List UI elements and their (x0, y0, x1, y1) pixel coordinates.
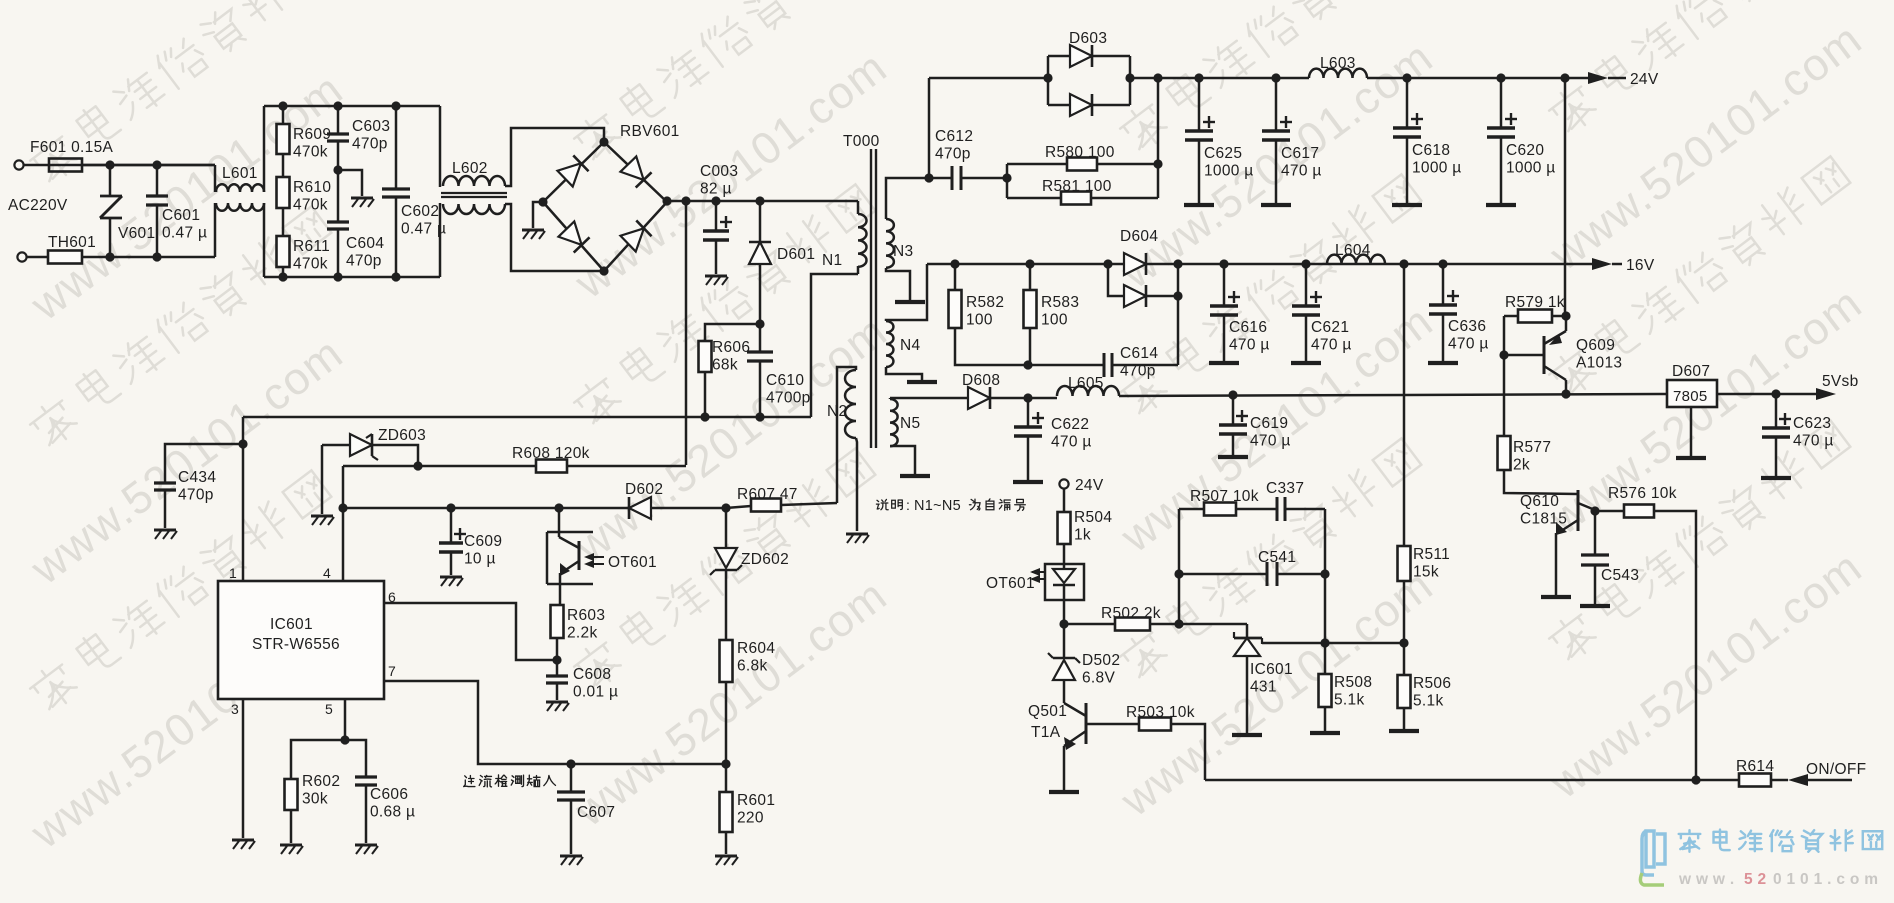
pin numbers IC601 (229, 565, 396, 717)
svg-text:D603: D603 (1069, 30, 1107, 47)
wire (1305, 315, 1308, 361)
capacitor C619 (1219, 410, 1248, 434)
wire to C434 (165, 444, 243, 483)
optocoupler OT601 LED (1030, 564, 1084, 600)
svg-text:C608: C608 (573, 666, 611, 683)
label R511 (1413, 546, 1450, 581)
inductor L601 bottom (216, 203, 264, 211)
resistor R582 (949, 290, 962, 328)
svg-text:1k: 1k (1074, 527, 1091, 544)
svg-text:R503 10k: R503 10k (1126, 704, 1195, 721)
svg-text:C625: C625 (1204, 145, 1242, 162)
ground bar N5 (900, 474, 930, 478)
label C625 (1204, 145, 1254, 180)
ground (715, 856, 738, 865)
terminal AC neutral input (17, 252, 26, 261)
wire 16V rail (927, 263, 1596, 266)
wire 431 cathode line (1262, 642, 1404, 645)
label R609 (293, 126, 331, 161)
ground (154, 530, 177, 539)
wire (556, 638, 559, 660)
label D603 (1069, 30, 1107, 47)
wire R577 to Q610 base (1504, 470, 1578, 494)
junction (1301, 259, 1310, 268)
junction (1438, 259, 1447, 268)
label L603 (1320, 55, 1356, 72)
label R504 (1074, 509, 1112, 544)
label C623 (1793, 415, 1834, 450)
svg-text:N1~N5: N1~N5 (914, 498, 961, 514)
label C606 (370, 786, 415, 821)
label R583 (1041, 294, 1079, 329)
capacitor C541 (1267, 562, 1277, 586)
junction (278, 101, 287, 110)
svg-text:100: 100 (1041, 312, 1068, 329)
capacitor C608 (546, 676, 568, 683)
svg-text:0.47 µ: 0.47 µ (162, 225, 207, 242)
svg-text:1000 µ: 1000 µ (1506, 160, 1556, 177)
terminal AC line input (14, 160, 23, 169)
wire N4 top to 16V rail (886, 264, 927, 321)
wire L602 to bridge top (505, 128, 604, 186)
svg-text:OT601: OT601 (608, 554, 657, 571)
wire N2 bottom (856, 438, 857, 531)
svg-text:T1A: T1A (1031, 724, 1061, 741)
wire D604 lower branch (1108, 264, 1124, 296)
svg-text:L605: L605 (1068, 375, 1104, 392)
svg-text:1000 µ: 1000 µ (1412, 160, 1462, 177)
junction (1173, 259, 1182, 268)
wire R576 to ON/OFF line (1654, 511, 1696, 780)
transformer winding N4 (886, 321, 893, 367)
wire (725, 682, 728, 764)
svg-text:STR-W6556: STR-W6556 (252, 636, 340, 653)
svg-text:470 µ: 470 µ (1281, 163, 1322, 180)
wire (1064, 623, 1115, 626)
junction (1043, 73, 1052, 82)
label R579 1k (1505, 294, 1565, 311)
capacitor C607 (557, 792, 585, 800)
wire ZD603 to R608 line (372, 445, 418, 466)
wire (450, 552, 453, 575)
wire to IC601 431 (1246, 624, 1249, 637)
junction (1002, 173, 1011, 182)
label C618 (1412, 142, 1462, 177)
wire (1007, 163, 1067, 166)
wire B+ to R608 (685, 201, 688, 465)
svg-text:470 µ: 470 µ (1250, 433, 1291, 450)
junction (413, 461, 422, 470)
wire (954, 264, 957, 290)
svg-text:V601: V601 (118, 225, 155, 242)
wire (1091, 197, 1158, 200)
label R604 (737, 640, 775, 675)
ground bar (1291, 361, 1321, 365)
svg-text:D502: D502 (1082, 652, 1120, 669)
svg-text:R581 100: R581 100 (1042, 178, 1112, 195)
wire (556, 660, 559, 676)
wire (1150, 623, 1247, 626)
wire N1 top (857, 201, 860, 214)
svg-text:6.8k: 6.8k (737, 658, 768, 675)
junction (755, 412, 764, 421)
label RBV601 (620, 123, 680, 140)
label L604 (1335, 242, 1371, 259)
junction (1561, 311, 1570, 320)
label T000 (843, 133, 880, 150)
wire (1198, 78, 1201, 131)
svg-text:16V: 16V (1626, 257, 1655, 274)
svg-text:0 1 0 1 . c o m: 0 1 0 1 . c o m (1773, 871, 1878, 888)
label C636 (1448, 318, 1489, 353)
label Q610 (1520, 493, 1567, 528)
svg-text:N1: N1 (822, 252, 842, 269)
svg-text:R611: R611 (293, 238, 330, 255)
ground bar (1486, 203, 1516, 207)
resistor R507 (1204, 503, 1236, 516)
junction (1023, 360, 1032, 369)
wire (1275, 140, 1278, 203)
wire ON/OFF line (1205, 779, 1788, 782)
wire (889, 398, 892, 399)
capacitor C623 (1762, 413, 1791, 437)
wire (1223, 315, 1226, 361)
wire (715, 201, 718, 231)
wire (725, 832, 728, 854)
varistor V601 (100, 165, 122, 257)
junction (333, 165, 342, 174)
wire R502 node up (1178, 509, 1181, 624)
wire (1608, 77, 1626, 80)
svg-text:R579 1k: R579 1k (1505, 294, 1565, 311)
wire (450, 508, 453, 543)
wire (26, 256, 49, 259)
wire pin5 (344, 699, 347, 740)
label N5 (900, 415, 920, 432)
label D608 (962, 372, 1000, 389)
wire rail to N1 bottom (811, 274, 858, 417)
wire (1552, 315, 1566, 318)
wire (1063, 680, 1066, 703)
ground (522, 230, 545, 239)
wire (1232, 434, 1235, 455)
svg-text:R583: R583 (1041, 294, 1079, 311)
svg-text:R606: R606 (712, 339, 750, 356)
svg-text:D602: D602 (625, 481, 663, 498)
resistor R606 (699, 341, 712, 372)
wire (1775, 437, 1778, 476)
ground bar N3 (895, 300, 925, 304)
junction (446, 503, 455, 512)
junction (1320, 569, 1329, 578)
wire to ground tap (338, 170, 362, 196)
svg-text:470k: 470k (293, 144, 328, 161)
capacitor C434 (154, 483, 176, 490)
wire (726, 506, 751, 508)
resistor R581 (1061, 192, 1091, 205)
wire Q501 emitter (1063, 746, 1066, 790)
wire N5 to D608 (890, 397, 969, 400)
wire pin7 overcurrent line (384, 681, 726, 764)
label C337 (1266, 480, 1304, 497)
wire (1324, 643, 1327, 674)
diode D604 lower (1124, 285, 1146, 307)
label 24V tap (1075, 477, 1104, 494)
svg-text:82 µ: 82 µ (700, 181, 732, 198)
junction (105, 160, 114, 169)
wire to R606 (705, 324, 760, 341)
svg-text:2k: 2k (1513, 457, 1530, 474)
junction (755, 319, 764, 328)
transformer winding N1 (858, 214, 867, 267)
junction (1402, 73, 1411, 82)
junction (711, 196, 720, 205)
wire (1500, 78, 1503, 128)
label ZD603 (378, 427, 426, 444)
ground (546, 702, 569, 711)
label N2 (827, 403, 847, 420)
wire (1232, 395, 1235, 425)
label D601 (777, 246, 815, 263)
wire (1500, 137, 1503, 203)
ground bar (1428, 361, 1458, 365)
capacitor C602 (382, 189, 410, 197)
label IC601/431 (1250, 661, 1293, 696)
wire (759, 324, 762, 352)
wire ZD603 anode to ground (321, 445, 324, 514)
label N3 (893, 243, 913, 260)
capacitor C003 (703, 216, 732, 240)
wire (1063, 544, 1066, 564)
winding N3 coil (886, 219, 894, 268)
label R603 (567, 607, 605, 642)
resistor R603 (551, 605, 564, 638)
junction (1103, 259, 1112, 268)
svg-text:www.520101.com: www.520101.com (1540, 277, 1872, 545)
wire 24V rail (1130, 77, 1309, 80)
wire (1594, 511, 1597, 555)
capacitor C612 (952, 166, 961, 190)
label 24V (1630, 71, 1659, 88)
junction (333, 101, 342, 110)
svg-text:C603: C603 (352, 118, 390, 135)
svg-text:470 µ: 470 µ (1311, 337, 1352, 354)
junction (1399, 259, 1408, 268)
label C617 (1281, 145, 1322, 180)
junction (338, 503, 347, 512)
svg-text:R511: R511 (1413, 546, 1450, 563)
wire (929, 177, 952, 180)
svg-text:470 µ: 470 µ (1229, 337, 1270, 354)
wire (1027, 398, 1030, 427)
svg-text:R580 100: R580 100 (1045, 144, 1115, 161)
svg-text:C619: C619 (1250, 415, 1288, 432)
label C543 (1601, 567, 1639, 584)
wire (164, 490, 167, 528)
wire (1595, 510, 1597, 513)
wire (1029, 264, 1032, 290)
junction (1023, 393, 1032, 402)
ground bar (1218, 455, 1248, 459)
label R577 (1513, 439, 1551, 474)
wire (395, 197, 398, 277)
label R601 (737, 792, 775, 827)
svg-text:24V: 24V (1630, 71, 1659, 88)
junction (1320, 638, 1329, 647)
junction (278, 272, 287, 281)
arrow 16V output (1592, 258, 1612, 270)
diode D601 (749, 242, 771, 264)
ground bar (1541, 595, 1571, 599)
junction (1499, 350, 1508, 359)
wire Q610 emitter (1555, 533, 1558, 595)
junction (1125, 73, 1134, 82)
wire (1198, 140, 1201, 203)
junction (1153, 159, 1162, 168)
inductor L602 bottom (443, 204, 505, 214)
wire (725, 764, 728, 792)
capacitor C617 (1262, 116, 1292, 140)
svg-text:w w w .: w w w . (1678, 871, 1735, 888)
ground (311, 516, 334, 525)
wire (1179, 508, 1204, 511)
wire (759, 264, 762, 324)
wire (23, 164, 215, 167)
label R606 (712, 339, 750, 374)
svg-text:N4: N4 (900, 337, 920, 354)
wire filter box right-top (439, 106, 442, 187)
transistor Q609 A1013 (1504, 331, 1566, 380)
ground bar (1389, 729, 1419, 733)
capacitor C610 (747, 352, 773, 361)
svg-text:C602: C602 (401, 203, 439, 220)
wire (1775, 394, 1778, 428)
bridge diode RBV601-4 (620, 220, 651, 251)
junction (1590, 506, 1599, 515)
svg-text:R508: R508 (1334, 674, 1372, 691)
svg-text::: : (906, 497, 910, 513)
label Q501 (1028, 703, 1067, 720)
wire 24V to Q609 (1564, 78, 1567, 316)
svg-text:C617: C617 (1281, 145, 1319, 162)
wire filter box top rail (264, 105, 440, 108)
wire to C606 (345, 740, 366, 777)
svg-text:470p: 470p (935, 146, 971, 163)
wire to ZD602 (725, 508, 728, 548)
junction (238, 439, 247, 448)
wire (1063, 624, 1066, 658)
label R611 (293, 238, 330, 273)
svg-text:C620: C620 (1506, 142, 1544, 159)
junction (1496, 73, 1505, 82)
junction (1271, 73, 1280, 82)
wire R607 to N2 (781, 503, 837, 505)
inductor L602 core (441, 193, 507, 197)
ground (232, 840, 255, 849)
regulator D607 7805 (1667, 380, 1717, 407)
label OT601 (0, 0, 1, 1)
junction (391, 101, 400, 110)
svg-text:D608: D608 (962, 372, 1000, 389)
svg-text:30k: 30k (302, 791, 328, 808)
bridge diode RBV601-1 (557, 155, 588, 186)
junction (152, 252, 161, 261)
junction (1399, 638, 1408, 647)
capacitor C621 (1292, 291, 1322, 315)
ground (440, 577, 463, 586)
wire (156, 205, 159, 257)
ground bar (1261, 203, 1291, 207)
wire N3 top (886, 178, 929, 219)
svg-text:N2: N2 (827, 403, 847, 420)
wire 431 anode (1246, 656, 1249, 733)
svg-text:C606: C606 (370, 786, 408, 803)
svg-text:470k: 470k (293, 256, 328, 273)
arrow ON/OFF input (1788, 774, 1808, 786)
label C604 (346, 235, 384, 270)
wire pin6 (384, 603, 557, 660)
ground bar (1232, 733, 1262, 737)
wire R582 bottom (955, 328, 1028, 365)
arrow 24V output (1588, 72, 1608, 84)
ground bar (1676, 456, 1706, 460)
wire (1097, 163, 1158, 166)
label ZD602 (741, 551, 789, 568)
ground bar (1209, 361, 1239, 365)
svg-text:5.1k: 5.1k (1334, 692, 1365, 709)
zener D502 (1048, 653, 1080, 680)
label ON/OFF (1806, 761, 1866, 778)
wire (1597, 510, 1624, 513)
capacitor C609 (439, 528, 466, 552)
inductor L605 (1057, 386, 1119, 396)
wire (704, 372, 707, 417)
wire Q609 emitter (1565, 316, 1568, 331)
label D602 (625, 481, 663, 498)
transformer winding N2 (845, 370, 856, 438)
svg-text:C003: C003 (700, 163, 738, 180)
wire (1063, 600, 1066, 624)
capacitor C604 (327, 222, 349, 229)
svg-text:C612: C612 (935, 128, 973, 145)
junction (1153, 73, 1162, 82)
label C621 (1311, 319, 1352, 354)
label C434 (178, 469, 216, 504)
svg-text:C616: C616 (1229, 319, 1267, 336)
label TH601 (48, 234, 96, 251)
winding N4 coil (886, 321, 893, 367)
label C603 (352, 118, 390, 153)
svg-text:T000: T000 (843, 133, 880, 150)
svg-text:R602: R602 (302, 773, 340, 790)
transformer T000 core (871, 149, 876, 448)
ground (705, 276, 728, 285)
wire (282, 154, 285, 177)
capacitor C606 (355, 777, 377, 785)
label C612 (935, 128, 973, 163)
wire R580 R581 left node (1006, 164, 1009, 198)
svg-text:Q501: Q501 (1028, 703, 1067, 720)
logo url (1678, 871, 1878, 888)
wire (1406, 137, 1409, 203)
ground (351, 198, 374, 207)
diode D604 upper (1124, 253, 1146, 275)
svg-text:N5: N5 (900, 415, 920, 432)
arrow 5Vsb output (1816, 388, 1836, 400)
resistor R579 (1518, 310, 1552, 323)
wire N2 top to R607 (837, 367, 856, 503)
note N1-N5 numbering (876, 497, 1025, 514)
